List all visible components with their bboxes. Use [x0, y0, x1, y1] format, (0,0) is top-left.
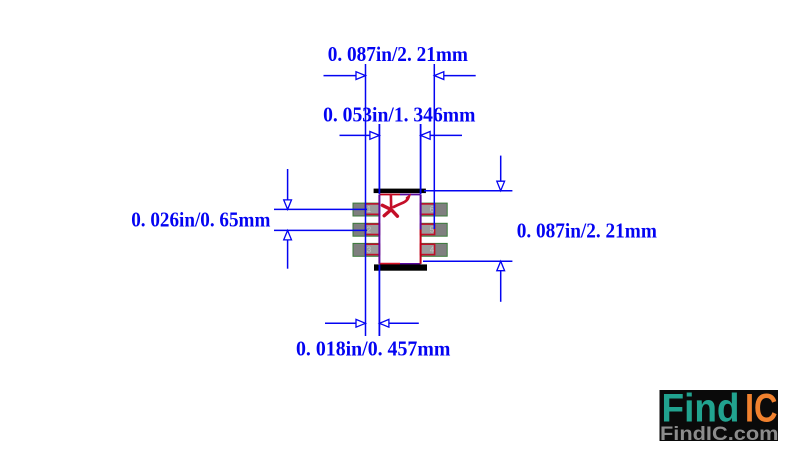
svg-text:0. 053in/1. 346mm: 0. 053in/1. 346mm [323, 102, 476, 126]
svg-text:4: 4 [430, 246, 435, 255]
svg-text:FindIC.com: FindIC.com [660, 424, 779, 445]
svg-text:2: 2 [367, 225, 372, 234]
svg-text:0. 087in/2. 21mm: 0. 087in/2. 21mm [517, 218, 658, 242]
svg-text:0. 026in/0. 65mm: 0. 026in/0. 65mm [131, 208, 271, 232]
svg-text:3: 3 [367, 246, 372, 255]
svg-text:0. 018in/0. 457mm: 0. 018in/0. 457mm [296, 336, 451, 360]
svg-text:1: 1 [367, 205, 372, 214]
svg-text:0. 087in/2. 21mm: 0. 087in/2. 21mm [328, 42, 469, 66]
